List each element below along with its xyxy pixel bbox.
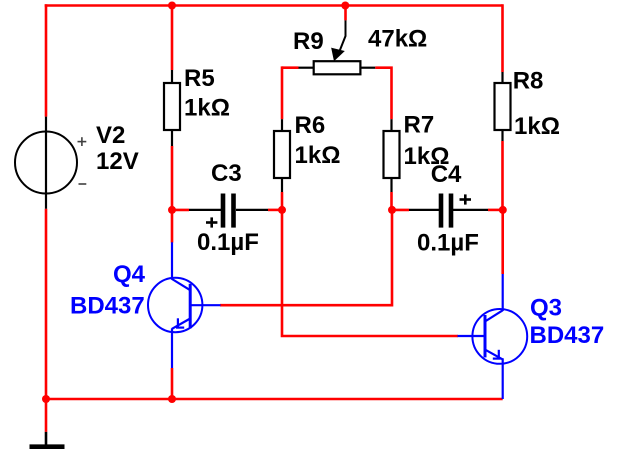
node dot C3 right xyxy=(278,206,286,214)
svg-text:47kΩ: 47kΩ xyxy=(368,26,427,53)
wire C3 row red left xyxy=(172,209,189,212)
svg-text:0.1µF: 0.1µF xyxy=(417,230,479,257)
svg-text:12V: 12V xyxy=(96,148,139,175)
wire Q3 base red to node xyxy=(282,210,458,336)
svg-text:R5: R5 xyxy=(184,65,215,92)
source V2 xyxy=(15,117,86,209)
svg-text:Q3: Q3 xyxy=(530,295,562,322)
transistor Q4 xyxy=(148,242,221,368)
wire Q4 base red to node xyxy=(220,210,392,305)
wire pot row right xyxy=(375,68,391,120)
svg-text:C4: C4 xyxy=(431,161,462,188)
capacitor C3 xyxy=(189,194,268,228)
node dot bottom left xyxy=(42,395,50,403)
potentiometer R9 xyxy=(299,20,376,74)
wire R7 bottom to C4 junction xyxy=(390,192,393,210)
svg-text:BD437: BD437 xyxy=(70,293,145,320)
transistor Q3 xyxy=(458,274,528,399)
svg-text:R7: R7 xyxy=(404,112,435,139)
node dot C4 right xyxy=(499,206,507,214)
svg-text:R9: R9 xyxy=(293,28,324,55)
wire C4 row red left xyxy=(392,209,409,212)
wire right rail upper xyxy=(501,4,504,72)
svg-text:R6: R6 xyxy=(295,112,326,139)
wire C3 row red right xyxy=(268,209,282,212)
wire right rail R8 to C4 xyxy=(501,141,504,210)
wire C4 row red right xyxy=(488,209,503,212)
resistor R7 xyxy=(384,119,400,192)
node dot C3 left xyxy=(168,206,176,214)
wire Q3 collector red xyxy=(501,210,504,274)
wire Q4 emitter red xyxy=(171,368,174,399)
wire top rail xyxy=(45,4,503,7)
svg-text:R8: R8 xyxy=(513,68,544,95)
wire R5 bottom to C3 xyxy=(171,146,174,210)
wire ground stem red xyxy=(45,399,48,432)
svg-text:0.1µF: 0.1µF xyxy=(197,229,259,256)
wire bottom rail xyxy=(46,398,503,401)
wire left rail upper xyxy=(45,4,48,116)
node dot bottom Q4 emitter xyxy=(168,395,176,403)
wire R6 bottom to C3 junction xyxy=(281,192,284,210)
node dot C4 left xyxy=(388,206,396,214)
resistor R6 xyxy=(274,119,290,192)
svg-text:V2: V2 xyxy=(96,122,125,149)
resistor R5 xyxy=(164,70,180,146)
wire Q4 collector red xyxy=(171,210,174,243)
wire pot left vertical to R6 xyxy=(281,68,282,120)
wire R9 wiper stub xyxy=(344,6,347,21)
svg-text:BD437: BD437 xyxy=(530,322,605,349)
svg-text:1kΩ: 1kΩ xyxy=(184,95,230,122)
wire left rail lower xyxy=(45,209,48,400)
ground xyxy=(30,432,65,447)
capacitor C4 xyxy=(409,194,488,228)
wire pot row left xyxy=(282,66,299,69)
wire R5 branch top xyxy=(171,6,174,71)
resistor R8 xyxy=(495,72,511,141)
node dot top wiper xyxy=(341,2,349,10)
node dot top R5 xyxy=(168,2,176,10)
svg-text:1kΩ: 1kΩ xyxy=(295,142,341,169)
svg-text:C3: C3 xyxy=(211,160,242,187)
svg-text:1kΩ: 1kΩ xyxy=(514,113,560,140)
svg-text:Q4: Q4 xyxy=(113,261,146,288)
